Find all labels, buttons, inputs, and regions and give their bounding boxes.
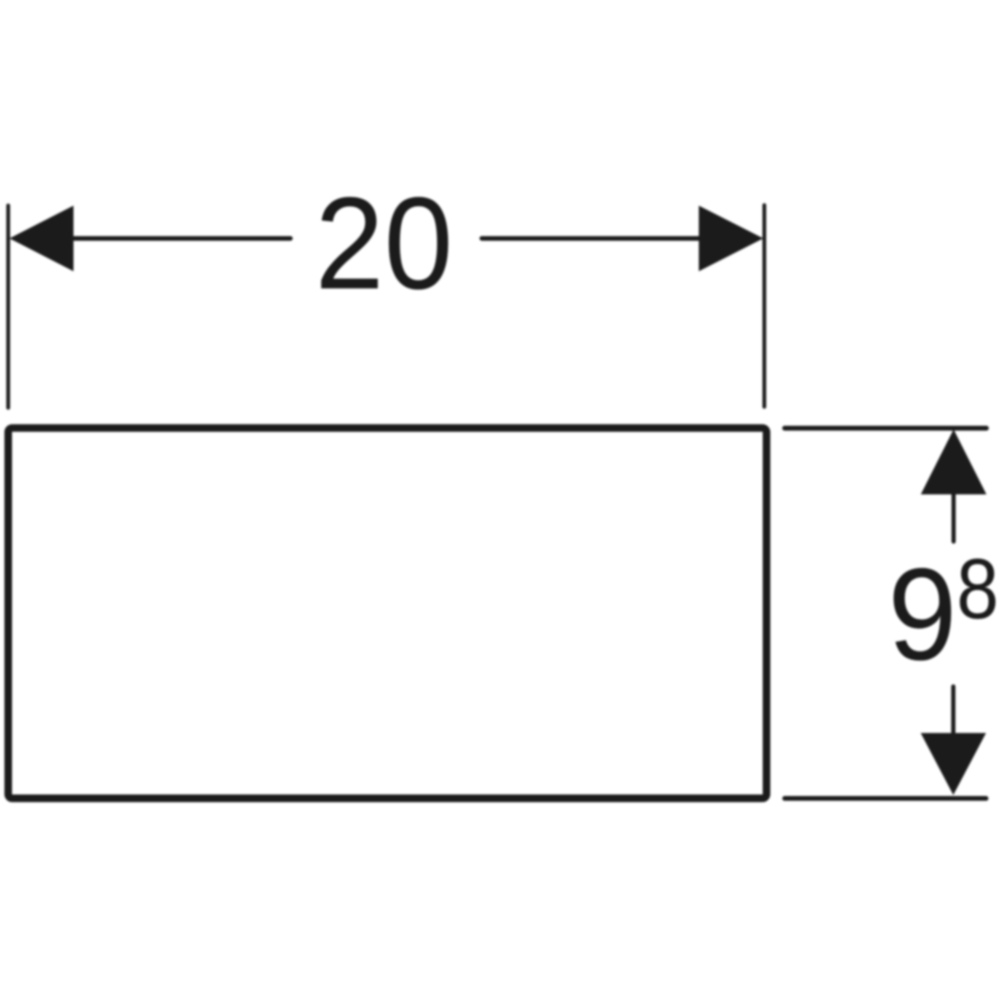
- svg-text:8: 8: [957, 542, 999, 637]
- svg-text:20: 20: [315, 169, 453, 316]
- svg-text:9: 9: [888, 540, 957, 687]
